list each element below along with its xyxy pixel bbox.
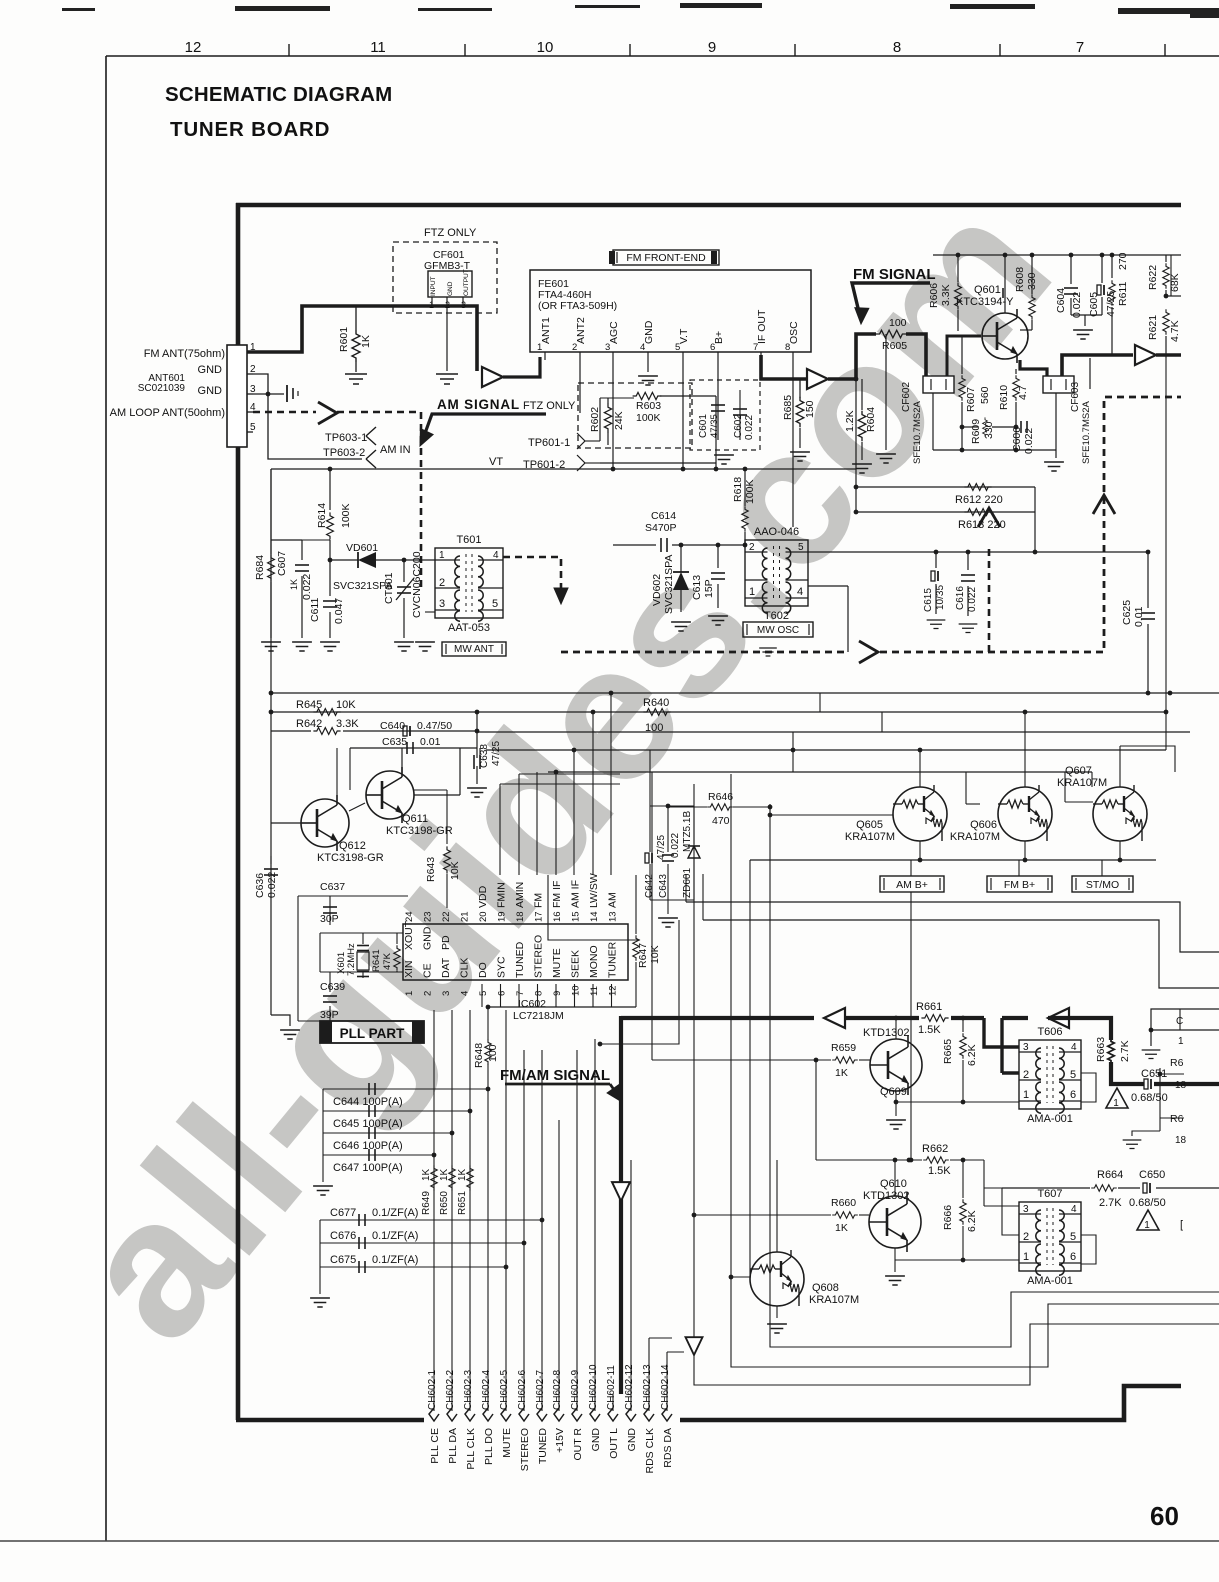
svg-text:R607: R607 [965, 387, 977, 412]
svg-text:TP603-1: TP603-1 [325, 432, 367, 444]
svg-text:22: 22 [441, 911, 452, 922]
svg-text:2: 2 [1023, 1069, 1029, 1081]
svg-text:4: 4 [493, 550, 499, 561]
svg-text:10K: 10K [336, 699, 356, 711]
svg-text:R649: R649 [421, 1191, 432, 1215]
svg-text:47/25: 47/25 [491, 741, 502, 766]
svg-text:[: [ [1180, 1219, 1183, 1231]
svg-text:SYC: SYC [496, 956, 508, 978]
svg-text:47/35: 47/35 [709, 414, 720, 438]
svg-text:14: 14 [589, 911, 600, 922]
svg-text:Q610: Q610 [880, 1178, 907, 1190]
svg-text:18: 18 [1175, 1135, 1187, 1146]
svg-text:5: 5 [798, 542, 804, 553]
svg-text:Q605: Q605 [856, 819, 883, 831]
svg-text:STEREO: STEREO [519, 1428, 531, 1471]
svg-text:MW OSC: MW OSC [757, 625, 799, 636]
svg-text:SFE10.7MS2A: SFE10.7MS2A [912, 401, 923, 464]
svg-text:0.022: 0.022 [744, 415, 755, 440]
svg-text:MONO: MONO [588, 945, 600, 978]
svg-text:2: 2 [572, 342, 577, 353]
svg-text:15: 15 [571, 911, 582, 922]
svg-text:CH602-3: CH602-3 [463, 1370, 474, 1410]
svg-text:13: 13 [608, 911, 619, 922]
svg-text:12: 12 [185, 39, 202, 56]
svg-text:0.022: 0.022 [670, 833, 681, 858]
svg-text:R618: R618 [732, 477, 744, 502]
svg-text:3: 3 [1023, 1042, 1029, 1053]
svg-text:VT: VT [489, 456, 503, 468]
svg-text:C613: C613 [691, 575, 703, 600]
svg-text:AM SIGNAL: AM SIGNAL [437, 397, 520, 412]
svg-text:FM/AM SIGNAL: FM/AM SIGNAL [500, 1067, 610, 1084]
svg-text:0.01: 0.01 [420, 736, 441, 748]
svg-text:11: 11 [370, 39, 386, 56]
svg-text:TUNED: TUNED [537, 1428, 549, 1465]
svg-text:0.1/ZF(A): 0.1/ZF(A) [372, 1254, 418, 1266]
svg-text:Q607: Q607 [1065, 765, 1092, 777]
svg-text:0.68/50: 0.68/50 [1131, 1092, 1168, 1104]
svg-text:1K: 1K [289, 579, 299, 590]
svg-text:R604: R604 [865, 407, 877, 432]
svg-text:100K: 100K [340, 503, 352, 528]
svg-text:C645 100P(A): C645 100P(A) [333, 1118, 403, 1130]
svg-text:10/35: 10/35 [935, 585, 946, 610]
svg-text:3.3K: 3.3K [940, 284, 952, 306]
svg-text:18: 18 [515, 911, 526, 922]
svg-text:0.01: 0.01 [1133, 606, 1145, 627]
svg-text:FM SIGNAL: FM SIGNAL [853, 266, 936, 283]
svg-text:16: 16 [552, 911, 563, 922]
svg-text:CH602-14: CH602-14 [660, 1364, 671, 1410]
svg-text:TUNER BOARD: TUNER BOARD [170, 118, 330, 141]
svg-text:R610: R610 [998, 385, 1010, 410]
svg-text:5: 5 [1070, 1069, 1076, 1081]
svg-text:10: 10 [537, 39, 554, 56]
svg-text:DO: DO [477, 962, 489, 978]
svg-text:IC602: IC602 [518, 998, 546, 1010]
svg-text:C640: C640 [380, 720, 405, 732]
svg-text:C677: C677 [330, 1207, 356, 1219]
svg-text:SVC321SPA: SVC321SPA [663, 555, 675, 614]
svg-text:PLL CLK: PLL CLK [465, 1428, 477, 1470]
svg-text:21: 21 [460, 911, 471, 922]
svg-text:1: 1 [439, 550, 445, 561]
svg-text:GND: GND [198, 385, 223, 397]
svg-text:KTC3198-GR: KTC3198-GR [317, 852, 384, 864]
svg-text:C611: C611 [309, 598, 321, 622]
svg-text:(OR FTA3-509H): (OR FTA3-509H) [538, 300, 617, 312]
svg-text:+15V: +15V [554, 1428, 566, 1453]
svg-text:CH602-1: CH602-1 [427, 1370, 438, 1410]
svg-text:C650: C650 [1139, 1169, 1165, 1181]
svg-text:R611: R611 [1117, 282, 1129, 306]
svg-text:11: 11 [589, 986, 600, 996]
svg-text:INPUT: INPUT [430, 276, 437, 296]
svg-text:SC021039: SC021039 [138, 383, 186, 394]
svg-text:10K: 10K [449, 861, 461, 880]
svg-text:CVCN06C200: CVCN06C200 [411, 551, 423, 618]
svg-text:R640: R640 [643, 697, 669, 709]
svg-text:CH602-13: CH602-13 [642, 1364, 653, 1410]
svg-text:1: 1 [1023, 1089, 1029, 1101]
svg-text:CH602-2: CH602-2 [445, 1370, 456, 1410]
svg-text:GND: GND [643, 320, 655, 344]
svg-text:6: 6 [1070, 1089, 1076, 1101]
svg-text:SEEK: SEEK [570, 950, 582, 978]
svg-text:4: 4 [797, 586, 803, 598]
svg-text:CH602-9: CH602-9 [570, 1370, 581, 1410]
svg-text:2: 2 [1023, 1231, 1029, 1243]
svg-text:DAT: DAT [440, 957, 452, 978]
svg-text:100: 100 [889, 317, 907, 329]
svg-text:C615: C615 [923, 588, 934, 612]
svg-text:STEREO: STEREO [533, 935, 545, 978]
svg-text:CH602-7: CH602-7 [535, 1370, 546, 1410]
svg-text:5: 5 [492, 598, 498, 610]
svg-text:18: 18 [1175, 1080, 1187, 1091]
svg-text:SCHEMATIC DIAGRAM: SCHEMATIC DIAGRAM [165, 83, 392, 106]
svg-text:C604: C604 [1055, 288, 1067, 313]
svg-text:2.7K: 2.7K [1099, 1197, 1122, 1209]
svg-text:RDS DA: RDS DA [662, 1428, 674, 1468]
svg-text:R643: R643 [425, 857, 437, 882]
svg-text:C637: C637 [320, 881, 345, 893]
svg-text:AMA-001: AMA-001 [1027, 1275, 1073, 1287]
svg-text:OSC: OSC [788, 321, 800, 344]
svg-text:R606: R606 [928, 283, 940, 308]
svg-text:6: 6 [1070, 1251, 1076, 1263]
svg-text:FM B+: FM B+ [1004, 879, 1035, 891]
svg-text:C614: C614 [651, 510, 676, 522]
svg-text:4: 4 [1071, 1042, 1077, 1053]
svg-text:24K: 24K [613, 411, 625, 430]
svg-text:C602: C602 [733, 414, 744, 438]
svg-text:4: 4 [640, 342, 645, 353]
svg-text:R651: R651 [457, 1191, 468, 1215]
svg-text:LW/SW: LW/SW [588, 873, 600, 908]
svg-text:KRA107M: KRA107M [809, 1294, 859, 1306]
svg-text:VD601: VD601 [346, 542, 378, 554]
svg-text:OUTPUT: OUTPUT [463, 269, 470, 296]
svg-text:17: 17 [534, 911, 545, 922]
svg-text:CH602-10: CH602-10 [588, 1364, 599, 1410]
svg-text:Q608: Q608 [812, 1282, 839, 1294]
svg-text:3: 3 [1023, 1204, 1029, 1215]
svg-text:8: 8 [893, 39, 901, 56]
svg-text:PLL DO: PLL DO [483, 1428, 495, 1465]
svg-text:GND: GND [626, 1428, 638, 1452]
svg-text:0.022: 0.022 [301, 574, 313, 600]
svg-text:MUTE: MUTE [551, 948, 563, 978]
svg-text:FM: FM [533, 893, 545, 908]
svg-text:R601: R601 [338, 327, 350, 352]
svg-text:1K: 1K [439, 1168, 450, 1181]
svg-text:CT601: CT601 [383, 572, 395, 604]
svg-text:AM: AM [607, 892, 619, 908]
svg-text:1: 1 [250, 342, 256, 353]
svg-text:Q601: Q601 [974, 284, 1001, 296]
svg-text:R662: R662 [922, 1143, 948, 1155]
svg-text:TP601-1: TP601-1 [528, 437, 570, 449]
svg-text:GND: GND [422, 926, 434, 950]
svg-text:FTZ ONLY: FTZ ONLY [424, 227, 477, 239]
svg-text:PLL DA: PLL DA [447, 1428, 459, 1464]
svg-text:CLK: CLK [459, 958, 471, 978]
svg-text:470: 470 [712, 815, 730, 827]
svg-text:C625: C625 [1121, 600, 1133, 625]
svg-text:R661: R661 [916, 1001, 942, 1013]
svg-text:Q611: Q611 [402, 813, 428, 825]
svg-text:C607: C607 [276, 551, 288, 576]
svg-text:5: 5 [1070, 1231, 1076, 1243]
svg-text:RDS CLK: RDS CLK [644, 1428, 656, 1474]
svg-text:4: 4 [460, 991, 471, 996]
svg-text:C: C [1176, 1016, 1183, 1027]
svg-text:9: 9 [552, 991, 563, 996]
svg-text:R641: R641 [371, 949, 382, 972]
svg-text:CH602-12: CH602-12 [624, 1364, 635, 1410]
svg-text:CH602-11: CH602-11 [606, 1365, 617, 1410]
svg-text:19: 19 [497, 911, 508, 922]
svg-text:10: 10 [571, 985, 582, 996]
svg-text:Q612: Q612 [339, 840, 366, 852]
svg-text:C601: C601 [698, 414, 709, 438]
svg-text:CE: CE [422, 963, 434, 978]
svg-text:8: 8 [785, 342, 790, 353]
svg-text:IF OUT: IF OUT [756, 309, 768, 344]
svg-text:TP603-2: TP603-2 [323, 447, 365, 459]
svg-text:8: 8 [534, 991, 545, 996]
svg-text:CH602-5: CH602-5 [499, 1370, 510, 1410]
svg-text:XOUT: XOUT [403, 920, 415, 950]
svg-text:100: 100 [487, 1044, 499, 1062]
svg-text:6.2K: 6.2K [966, 1044, 978, 1066]
svg-text:6.2K: 6.2K [966, 1210, 978, 1232]
svg-text:PLL CE: PLL CE [429, 1428, 441, 1464]
svg-text:ANT2: ANT2 [575, 317, 587, 344]
svg-text:R602: R602 [589, 407, 601, 432]
svg-text:20: 20 [478, 911, 489, 922]
svg-text:270: 270 [1117, 252, 1129, 270]
svg-text:R603: R603 [636, 400, 661, 412]
svg-text:4.7K: 4.7K [1169, 320, 1181, 342]
svg-text:100K: 100K [744, 479, 756, 504]
svg-text:0.1/ZF(A): 0.1/ZF(A) [372, 1230, 418, 1242]
svg-text:GND: GND [590, 1428, 602, 1452]
svg-text:1: 1 [1178, 1036, 1184, 1047]
svg-text:C644 100P(A): C644 100P(A) [333, 1096, 403, 1108]
svg-text:7: 7 [1076, 39, 1084, 56]
svg-text:R650: R650 [439, 1191, 450, 1215]
svg-text:0.68/50: 0.68/50 [1129, 1197, 1166, 1209]
svg-text:60: 60 [1150, 1501, 1179, 1531]
svg-text:AGC: AGC [608, 321, 620, 344]
svg-text:0.47/50: 0.47/50 [417, 720, 452, 732]
svg-text:AM B+: AM B+ [896, 879, 928, 891]
svg-text:R613 220: R613 220 [958, 519, 1006, 531]
svg-text:T606: T606 [1037, 1026, 1062, 1038]
svg-text:GND: GND [447, 281, 454, 296]
svg-text:1K: 1K [457, 1168, 468, 1181]
svg-text:R665: R665 [942, 1039, 954, 1064]
svg-text:PLL PART: PLL PART [340, 1026, 406, 1041]
svg-text:C635: C635 [382, 736, 407, 748]
svg-text:1: 1 [537, 342, 542, 353]
svg-text:2: 2 [749, 542, 755, 553]
svg-text:MW ANT: MW ANT [454, 644, 494, 655]
svg-text:5: 5 [478, 991, 489, 996]
svg-text:KTC3198-GR: KTC3198-GR [386, 825, 453, 837]
svg-text:C616: C616 [955, 586, 966, 610]
svg-text:FTZ ONLY: FTZ ONLY [523, 400, 576, 412]
svg-text:560: 560 [979, 386, 991, 404]
svg-text:OUT L: OUT L [608, 1428, 620, 1459]
svg-text:C647 100P(A): C647 100P(A) [333, 1162, 403, 1174]
svg-text:R622: R622 [1147, 265, 1159, 290]
svg-text:3: 3 [605, 342, 610, 353]
svg-text:30P: 30P [320, 913, 339, 925]
svg-text:R608: R608 [1014, 267, 1026, 292]
svg-text:R6: R6 [1170, 1057, 1184, 1069]
svg-text:2.7K: 2.7K [1119, 1040, 1131, 1062]
svg-text:6: 6 [497, 991, 508, 996]
svg-text:7.2MHz: 7.2MHz [346, 943, 357, 976]
svg-text:CF603: CF603 [1070, 382, 1081, 412]
svg-text:FM ANT(75ohm): FM ANT(75ohm) [144, 348, 225, 360]
svg-text:7: 7 [515, 991, 526, 996]
svg-text:1: 1 [1023, 1251, 1029, 1263]
svg-text:TUNED: TUNED [514, 941, 526, 978]
svg-text:KRA107M: KRA107M [950, 831, 1000, 843]
svg-text:23: 23 [423, 911, 434, 922]
svg-text:Q606: Q606 [970, 819, 997, 831]
svg-text:PD: PD [440, 935, 452, 950]
svg-text:T602: T602 [764, 610, 789, 622]
svg-text:1.2K: 1.2K [844, 410, 856, 432]
svg-text:R609: R609 [970, 419, 982, 444]
svg-text:10K: 10K [649, 945, 661, 964]
svg-text:R666: R666 [942, 1205, 954, 1230]
svg-text:24: 24 [404, 911, 415, 922]
svg-text:AAO-046: AAO-046 [754, 526, 799, 538]
svg-text:CF602: CF602 [901, 382, 912, 412]
svg-text:AAT-053: AAT-053 [448, 622, 490, 634]
svg-text:ZD601: ZD601 [682, 868, 693, 898]
svg-text:XIN: XIN [403, 960, 415, 978]
svg-text:TUNER: TUNER [607, 941, 619, 978]
svg-text:R664: R664 [1097, 1169, 1123, 1181]
svg-text:1: 1 [1144, 1220, 1150, 1231]
svg-text:39P: 39P [320, 1009, 339, 1021]
svg-text:AMIN: AMIN [514, 882, 526, 908]
svg-text:9: 9 [708, 39, 716, 56]
svg-text:R621: R621 [1147, 315, 1159, 340]
svg-text:KTD1302: KTD1302 [863, 1190, 909, 1202]
svg-text:VD602: VD602 [651, 574, 663, 606]
svg-text:C639: C639 [320, 981, 345, 993]
svg-text:R612 220: R612 220 [955, 494, 1003, 506]
svg-text:R663: R663 [1095, 1037, 1107, 1062]
svg-text:R646: R646 [708, 791, 733, 803]
svg-text:VDD: VDD [477, 885, 489, 908]
svg-text:47/25: 47/25 [656, 835, 667, 860]
svg-text:4: 4 [250, 402, 256, 413]
svg-text:1: 1 [404, 991, 415, 996]
svg-text:C675: C675 [330, 1254, 356, 1266]
svg-text:R660: R660 [831, 1197, 856, 1209]
svg-text:1.5K: 1.5K [918, 1024, 941, 1036]
svg-text:FM IF: FM IF [551, 881, 563, 908]
svg-text:C643: C643 [658, 874, 669, 898]
svg-text:AM LOOP ANT(50ohm): AM LOOP ANT(50ohm) [110, 407, 225, 419]
svg-text:R648: R648 [473, 1043, 485, 1068]
svg-text:T601: T601 [456, 534, 481, 546]
svg-text:C646 100P(A): C646 100P(A) [333, 1140, 403, 1152]
svg-text:1K: 1K [835, 1222, 848, 1234]
svg-text:12: 12 [608, 985, 619, 996]
svg-text:R685: R685 [782, 395, 794, 420]
svg-text:AM IN: AM IN [380, 444, 411, 456]
svg-text:CH602-8: CH602-8 [552, 1370, 563, 1410]
svg-text:SFE10.7MS2A: SFE10.7MS2A [1081, 401, 1092, 464]
svg-text:150: 150 [804, 400, 816, 418]
svg-text:1K: 1K [360, 335, 372, 348]
svg-text:15P: 15P [703, 579, 715, 598]
svg-text:AM IF: AM IF [570, 880, 582, 908]
svg-text:R6: R6 [1170, 1113, 1184, 1125]
svg-text:CH602-6: CH602-6 [517, 1370, 528, 1410]
svg-text:3.3K: 3.3K [336, 718, 359, 730]
svg-text:3: 3 [439, 598, 445, 610]
svg-text:47/25: 47/25 [1105, 291, 1117, 317]
svg-text:CH602-4: CH602-4 [481, 1370, 492, 1410]
svg-text:C676: C676 [330, 1230, 356, 1242]
svg-text:5: 5 [250, 422, 256, 433]
svg-text:2: 2 [423, 991, 434, 996]
svg-text:LC7218JM: LC7218JM [513, 1010, 564, 1022]
svg-text:FMIN: FMIN [496, 882, 508, 908]
svg-text:7: 7 [753, 342, 758, 353]
svg-text:MUTE: MUTE [501, 1428, 513, 1458]
svg-text:100K: 100K [636, 412, 661, 424]
svg-text:3: 3 [441, 991, 452, 996]
svg-text:ST/MO: ST/MO [1086, 879, 1119, 891]
svg-text:6: 6 [710, 342, 715, 353]
svg-text:47K: 47K [382, 952, 393, 970]
svg-text:0.1/ZF(A): 0.1/ZF(A) [372, 1207, 418, 1219]
svg-text:AMA-001: AMA-001 [1027, 1113, 1073, 1125]
svg-text:T607: T607 [1037, 1188, 1062, 1200]
svg-text:R684: R684 [254, 555, 266, 580]
svg-text:OUT R: OUT R [572, 1428, 584, 1461]
svg-text:2: 2 [439, 577, 445, 589]
svg-text:R659: R659 [831, 1042, 856, 1054]
svg-text:S470P: S470P [645, 522, 677, 534]
svg-text:KTD1302: KTD1302 [863, 1027, 909, 1039]
svg-text:FM FRONT-END: FM FRONT-END [626, 252, 706, 264]
svg-text:4: 4 [1071, 1204, 1077, 1215]
svg-text:R614: R614 [316, 503, 328, 528]
svg-text:0.022: 0.022 [1071, 292, 1083, 318]
svg-text:C636: C636 [254, 873, 266, 898]
svg-text:1K: 1K [835, 1067, 848, 1079]
svg-text:1.5K: 1.5K [928, 1165, 951, 1177]
svg-text:GND: GND [198, 364, 223, 376]
svg-text:5: 5 [675, 342, 680, 353]
svg-text:1K: 1K [421, 1168, 432, 1181]
svg-text:0.022: 0.022 [967, 587, 978, 612]
